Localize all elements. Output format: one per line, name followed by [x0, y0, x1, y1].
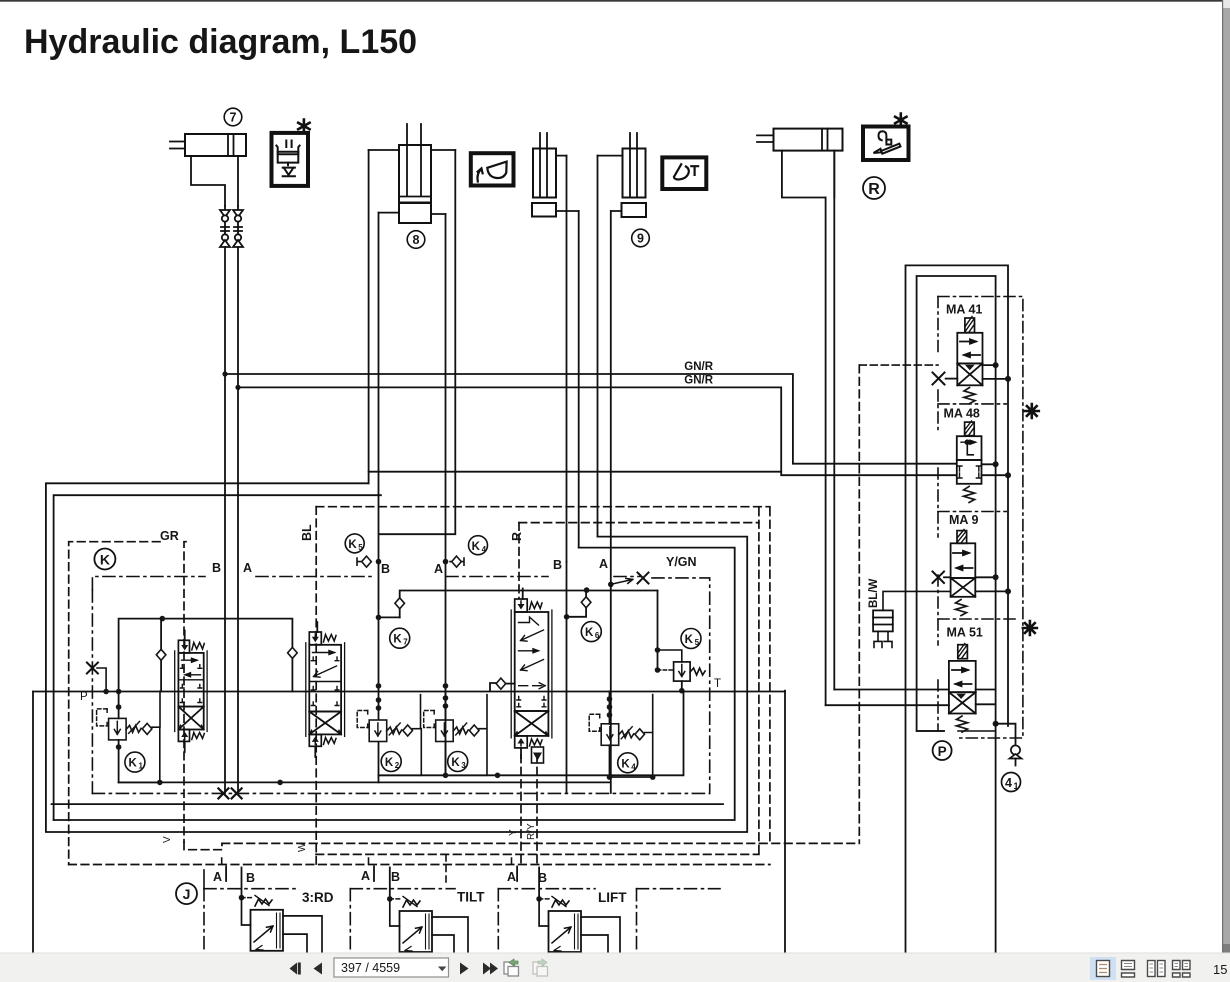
svg-text:BL: BL: [300, 524, 314, 541]
relief valve K4: [589, 692, 653, 778]
single page view icon (active): [1090, 957, 1116, 980]
bottom toolbar: [0, 953, 1230, 982]
J port stubs: [226, 867, 241, 898]
last page button: [483, 963, 491, 975]
svg-text:V: V: [162, 836, 173, 843]
continuous scroll icon: [1122, 961, 1135, 978]
check valve on 3RD bridge: [160, 619, 162, 649]
prev page button: [314, 963, 323, 975]
next view icon (disabled): [533, 959, 548, 976]
cylinder R (boom raise cylinder, horizontal top right): [757, 129, 843, 198]
svg-text:Y: Y: [508, 829, 519, 836]
cylinder 8 hose lines: [369, 150, 456, 214]
svg-text:1: 1: [1013, 781, 1018, 791]
svg-text:GN/R: GN/R: [684, 361, 713, 373]
J section dash-dot separators: [204, 870, 637, 952]
svg-text:W: W: [297, 842, 308, 852]
svg-text:3:RD: 3:RD: [302, 890, 334, 905]
svg-text:A: A: [507, 870, 516, 884]
svg-text:Y/GN: Y/GN: [666, 555, 697, 569]
svg-text:K: K: [621, 758, 630, 770]
spool valve TILT (K block): [306, 622, 345, 757]
svg-text:P: P: [938, 744, 947, 759]
window top border: [0, 0, 1224, 2]
svg-text:MA 9: MA 9: [949, 513, 978, 527]
solenoid valve MA 51: [826, 626, 1016, 746]
two page view icon: [1148, 961, 1166, 977]
MA48 right ports: [982, 464, 1009, 475]
pressure switch BL/W: [868, 578, 951, 647]
solenoid valve MA 9: [933, 513, 1012, 616]
svg-text:K: K: [585, 627, 594, 639]
svg-text:P: P: [80, 691, 88, 703]
MA51 left ports from cylinder R: [826, 690, 949, 706]
svg-text:6: 6: [595, 631, 600, 640]
turn lines to lower-right frame: [46, 537, 747, 832]
spool valve 3RD (K block): [175, 631, 207, 753]
svg-text:K: K: [385, 757, 394, 769]
test point X on A line (LIFT): [608, 573, 649, 588]
svg-text:9: 9: [637, 232, 644, 246]
node R: [863, 177, 885, 199]
cylinder 9 (steering cylinder right, small): [622, 133, 650, 247]
previous view icon: [504, 959, 519, 976]
svg-text:7: 7: [230, 111, 237, 125]
first page button: [290, 963, 298, 975]
svg-text:15: 15: [1213, 962, 1227, 977]
svg-text:K: K: [451, 757, 460, 769]
pump frame outer rectangle: [906, 265, 1009, 952]
bleed screw K5 (top): [345, 534, 381, 567]
svg-text:B: B: [553, 558, 562, 572]
icon box (boom) with asterisk: [863, 114, 909, 161]
svg-text:K: K: [100, 552, 110, 568]
svg-text:A: A: [213, 870, 222, 884]
svg-text:B: B: [391, 870, 400, 884]
svg-text:A: A: [361, 869, 370, 883]
wire: cylinder8 left hoses across to left margin: [369, 471, 782, 473]
pump frame inner rectangle: [917, 276, 996, 952]
svg-text:4: 4: [1005, 776, 1012, 790]
asterisk marker upper: [1025, 404, 1039, 418]
check valve 41: [1010, 745, 1022, 765]
node K: [94, 549, 115, 570]
X shutoff on P inlet: [87, 663, 109, 695]
next page button: [460, 963, 469, 975]
cylinder 9 hoses: [598, 156, 623, 211]
svg-text:R/Y: R/Y: [526, 823, 537, 840]
X port left of MA9: [933, 572, 945, 584]
svg-text:GR: GR: [160, 529, 179, 543]
svg-text:R: R: [868, 181, 880, 198]
solenoid valve MA 48: [944, 407, 1012, 503]
wire: cylinder 7 lines down to valve block: [225, 247, 238, 793]
cylinder R hose lines down: [826, 151, 835, 706]
wire GN/R lower: [238, 387, 956, 475]
svg-text:B: B: [212, 561, 221, 575]
nested frame bottoms: [52, 803, 724, 805]
svg-text:MA 51: MA 51: [947, 626, 983, 640]
svg-text:K: K: [472, 541, 481, 553]
node J: [176, 883, 197, 904]
svg-text:BL/W: BL/W: [868, 578, 880, 608]
two page scroll icon: [1173, 961, 1191, 978]
relief valve K1: [97, 691, 160, 782]
svg-text:MA 48: MA 48: [944, 407, 980, 421]
icon box (3rd function) with asterisk: [272, 120, 310, 186]
X port left of MA41: [933, 373, 945, 385]
cylinder 8 (lift cylinder left): [399, 124, 431, 248]
svg-text:J: J: [183, 886, 191, 902]
shut-off couplers under cylinder 7: [220, 206, 243, 247]
svg-text:5: 5: [695, 638, 700, 647]
svg-text:K: K: [129, 758, 138, 770]
relief valve K3: [424, 683, 487, 775]
relief valve K5 (port relief): [655, 591, 705, 694]
pilot valve LIFT (J): [536, 896, 620, 952]
svg-text:397 / 4559: 397 / 4559: [341, 961, 400, 975]
valve block dash-dot boundary: [92, 577, 709, 794]
MA51 right ports: [976, 690, 996, 705]
spool valve LIFT (K block): [511, 589, 552, 764]
left margin riser: [32, 692, 34, 953]
svg-text:A: A: [243, 561, 252, 575]
K6 check valve: [564, 587, 602, 641]
node 41 label: [1002, 773, 1021, 792]
P supply long line: [33, 691, 785, 693]
MA9 right ports: [975, 577, 1008, 591]
svg-text:Hydraulic diagram, L150: Hydraulic diagram, L150: [24, 23, 417, 61]
svg-text:A: A: [434, 562, 443, 576]
dashed jogs above J ports: [222, 855, 512, 886]
K7 check valve: [376, 591, 658, 649]
3RD spool bridge line: [119, 619, 293, 692]
cylinder 9a hoses: [556, 156, 579, 211]
svg-text:LIFT: LIFT: [598, 890, 627, 905]
svg-text:K: K: [393, 634, 402, 646]
LS check on LIFT: [490, 678, 515, 690]
asterisk marker lower: [1023, 621, 1037, 635]
svg-text:TILT: TILT: [457, 890, 485, 905]
cylinder 9a (steering cylinder left, small): [532, 133, 556, 217]
svg-text:2: 2: [395, 761, 400, 770]
right scrollbar strip: [1222, 0, 1230, 982]
svg-text:GN/R: GN/R: [684, 375, 713, 387]
bleed screw K4 (top): [443, 536, 488, 567]
svg-text:1: 1: [138, 762, 143, 771]
check valve on TILT bridge: [288, 647, 298, 658]
J block dash-dot boundary: [204, 888, 720, 890]
XX plugs at 3RD outlets: [218, 788, 241, 798]
svg-text:MA 41: MA 41: [946, 303, 982, 317]
icon box (tilt T): [662, 157, 706, 189]
relief valve K2: [357, 683, 421, 775]
svg-text:K: K: [348, 539, 357, 551]
MA block dash-dot border: [859, 297, 1023, 739]
svg-text:4: 4: [482, 545, 487, 554]
B/A service lines within block: [445, 562, 447, 776]
svg-text:R: R: [510, 532, 524, 541]
svg-text:K: K: [685, 634, 694, 646]
svg-text:4: 4: [631, 762, 636, 771]
dashed hose box outer left (K block): [69, 365, 860, 866]
node P: [933, 741, 952, 760]
pilot valve 3RD (J): [239, 895, 322, 952]
svg-text:A: A: [599, 557, 608, 571]
wire GN/R upper: [225, 374, 956, 464]
svg-text:7: 7: [403, 638, 408, 647]
svg-text:T: T: [714, 678, 721, 690]
svg-text:3: 3: [461, 761, 466, 770]
svg-text:B: B: [381, 562, 390, 576]
svg-text:8: 8: [413, 233, 420, 247]
T line down right: [784, 691, 786, 952]
icon box (bucket): [471, 153, 514, 185]
cylinder 7 (attachment bracket cylinder, horizontal): [170, 108, 246, 206]
page number input: [334, 958, 449, 977]
pilot valve TILT (J): [387, 896, 468, 952]
solenoid valve MA 41: [933, 303, 1012, 404]
svg-text:B: B: [246, 871, 255, 885]
MA41 right ports: [983, 365, 1009, 379]
svg-text:5: 5: [358, 543, 363, 552]
